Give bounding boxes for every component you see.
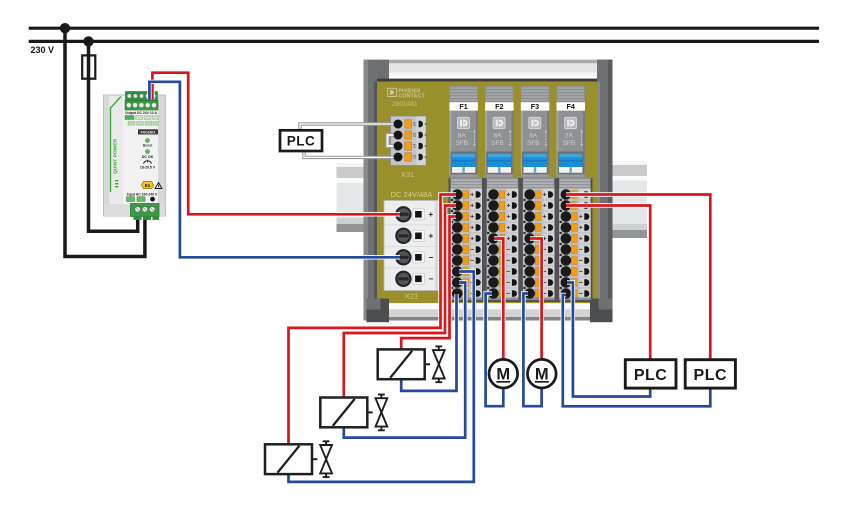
svg-text:M: M <box>535 366 549 384</box>
terminal strip column 3 (below F3) <box>523 178 555 300</box>
svg-text:230 V: 230 V <box>31 45 55 55</box>
svg-text:F4: F4 <box>567 102 575 111</box>
svg-text:+: + <box>506 225 510 232</box>
wire blue valve Y2 return to row9 <box>344 283 465 438</box>
svg-text:−: − <box>506 269 510 276</box>
svg-text:24: 24 <box>412 122 416 126</box>
svg-text:+: + <box>543 214 547 221</box>
motor M2 <box>528 359 557 388</box>
wire blue motor M1 return to F2 row10 <box>486 294 504 407</box>
circuit breaker F3 (8A SFB) <box>521 86 550 178</box>
svg-text:+: + <box>428 210 433 219</box>
svg-text:+: + <box>506 214 510 221</box>
svg-text:−: − <box>428 253 433 262</box>
wire red F2 row5 to motor M1 <box>494 239 503 361</box>
svg-text:2801481: 2801481 <box>392 101 418 108</box>
svg-text:M: M <box>496 366 510 384</box>
svg-text:2A: 2A <box>565 133 574 140</box>
svg-text:CONTACT: CONTACT <box>398 94 425 100</box>
circuit breaker F1 (8A SFB) <box>449 86 478 178</box>
svg-text:DC OK: DC OK <box>142 155 154 159</box>
svg-text:−: − <box>579 291 583 298</box>
junction dot on bus L <box>60 23 70 33</box>
PSU Boost LED <box>143 139 153 148</box>
PLC box 2 (load on F4) <box>685 360 735 388</box>
svg-text:Output DC 24V 10 A: Output DC 24V 10 A <box>125 111 157 115</box>
svg-text:F1: F1 <box>459 102 467 111</box>
solenoid valve Y3 <box>265 441 332 477</box>
Phoenix Contact logo on module <box>388 88 426 99</box>
X31 terminal row pin 14 <box>394 142 427 151</box>
PLC box 1 (load on F4) <box>625 360 676 388</box>
svg-text:−: − <box>579 269 583 276</box>
svg-text:+: + <box>543 192 547 199</box>
wire red F4 row1 to PLC box 2 <box>566 195 710 361</box>
X31 terminal row pin 13 <box>394 153 427 162</box>
circuit breaker F4 (2A SFB) <box>557 86 586 178</box>
svg-text:Ex: Ex <box>145 183 151 188</box>
svg-text:−: − <box>579 258 583 265</box>
svg-text:+: + <box>543 225 547 232</box>
wire blue PSU - output to X21 terminal 3 <box>149 82 400 257</box>
X21 terminal 2 (plus) <box>385 228 438 247</box>
wire signal PLC to X31 pin 13 <box>304 151 396 158</box>
svg-text:SFB: SFB <box>491 140 503 147</box>
wire black from L bus to PSU input N terminal <box>65 28 145 256</box>
solenoid valve Y1 <box>378 346 445 382</box>
svg-text:−: − <box>506 247 510 254</box>
svg-text:−: − <box>506 258 510 265</box>
solenoid valve Y2 <box>320 395 387 431</box>
svg-text:+: + <box>470 192 474 199</box>
connector X31 block <box>391 116 427 166</box>
svg-text:Boost: Boost <box>143 144 153 148</box>
X21 terminal 1 (plus) <box>385 206 438 225</box>
terminal strip column 1 (below F1) <box>451 178 483 300</box>
svg-text:+: + <box>470 236 474 243</box>
wire signal PLC to X31 pin 24 <box>300 124 396 131</box>
DIN rail right segment <box>613 161 648 238</box>
wire red PSU + output to X21 terminal 1 <box>152 73 400 215</box>
svg-text:13: 13 <box>412 155 416 159</box>
junction dot on bus N <box>83 36 93 46</box>
breaker module chassis frame <box>364 60 613 321</box>
PLC box left (signal) <box>280 130 322 151</box>
terminal strip backing <box>449 178 593 302</box>
svg-text:23: 23 <box>412 133 416 137</box>
terminal strip column 4 (below F4) <box>559 178 591 300</box>
svg-text:QUINT POWER: QUINT POWER <box>113 138 119 174</box>
jumper X31 pin 23 to pin 14 <box>388 135 397 146</box>
svg-text:F2: F2 <box>495 102 503 111</box>
PSU input terminal block (bottom, green) <box>104 204 165 220</box>
terminal strip column 2 (below F2) <box>487 178 519 300</box>
svg-text:+: + <box>470 203 474 210</box>
X31 wire entry contacts (redrawn over wires) <box>394 120 403 162</box>
PSU QUINT POWER vertical branding <box>111 97 122 193</box>
svg-text:8A: 8A <box>494 133 503 140</box>
PSU DIP/config green bars <box>125 116 159 126</box>
PSU DC OK LED <box>142 150 154 159</box>
X31 terminal row pin 23 <box>394 131 427 140</box>
svg-text:SFB: SFB <box>563 140 575 147</box>
svg-text:PHOENIX: PHOENIX <box>141 130 157 134</box>
X21 terminal 3 (minus) <box>385 249 438 268</box>
wire black from N bus through fuse to PSU input L terminal <box>89 41 138 231</box>
svg-text:8A: 8A <box>529 133 538 140</box>
svg-text:+: + <box>428 232 433 241</box>
svg-text:−: − <box>579 280 583 287</box>
wire blue motor M2 return to F3 row10 <box>523 294 541 407</box>
fuse F5 <box>82 55 95 78</box>
bus line L (230 V top conductor) <box>29 27 819 30</box>
wire blue PLC box 2 return to F4 row10 <box>563 295 711 406</box>
svg-text:PLC: PLC <box>634 367 668 384</box>
PSU potentiometer 18-29.5 V <box>140 160 156 170</box>
svg-text:−: − <box>470 247 474 254</box>
svg-text:8A: 8A <box>458 133 467 140</box>
connector X21 block <box>384 201 440 291</box>
svg-text:−: − <box>579 247 583 254</box>
wire red F3 row5 to motor M2 <box>530 239 542 361</box>
svg-text:+: + <box>470 214 474 221</box>
svg-text:SFB: SFB <box>527 140 539 147</box>
svg-text:+: + <box>506 203 510 210</box>
wire blue valve Y1 return to row10 <box>401 294 456 391</box>
power supply U1 QUINT POWER body <box>104 95 166 216</box>
svg-text:+: + <box>543 203 547 210</box>
wire red F1 output row3 to valve Y1 <box>401 217 456 351</box>
svg-text:18-29.5 V: 18-29.5 V <box>140 166 156 170</box>
svg-text:PLC: PLC <box>287 134 316 149</box>
PSU output terminal block (top, green) <box>125 92 158 111</box>
X21 terminal 4 (minus) <box>395 271 433 287</box>
svg-text:PLC: PLC <box>694 367 728 384</box>
svg-text:−: − <box>506 280 510 287</box>
svg-text:−: − <box>428 275 433 284</box>
module base plate <box>367 299 613 323</box>
circuit breaker F2 (8A SFB) <box>485 86 513 178</box>
svg-text:F3: F3 <box>531 102 539 111</box>
svg-text:Input AC 100-240 V: Input AC 100-240 V <box>127 192 158 196</box>
svg-text:+: + <box>579 236 583 243</box>
svg-text:+: + <box>579 225 583 232</box>
wire blue valve Y3 return to row8 <box>289 272 474 482</box>
svg-text:−: − <box>506 291 510 298</box>
svg-text:−: − <box>470 258 474 265</box>
wire blue PLC box 1 return to F4 row9 <box>567 283 650 397</box>
PSU Phoenix Contact nameplate <box>138 129 158 134</box>
wire red F4 row2 to PLC box 1 <box>566 206 650 361</box>
bus line N (230 V lower conductor) <box>29 40 819 43</box>
svg-text:SFB: SFB <box>456 140 468 147</box>
X31 terminal row pin 24 <box>394 120 427 129</box>
svg-text:+: + <box>579 214 583 221</box>
svg-text:X31: X31 <box>401 170 414 179</box>
wire red F1 output row1 to valve Y3 <box>289 195 457 446</box>
svg-text:+: + <box>506 192 510 199</box>
svg-text:X21: X21 <box>405 292 418 301</box>
module olive backplate <box>377 82 597 304</box>
svg-text:DC 24V/48A: DC 24V/48A <box>391 190 433 199</box>
motor M1 <box>489 359 518 388</box>
svg-text:+: + <box>506 236 510 243</box>
svg-text:14: 14 <box>412 144 416 148</box>
PSU input indicator row L N <box>127 197 155 202</box>
PSU Ex hazardous-area symbol <box>142 182 163 189</box>
DIN rail left stub <box>337 163 365 232</box>
svg-text:+: + <box>470 225 474 232</box>
wire red F1 output row2 to valve Y2 <box>344 206 456 399</box>
